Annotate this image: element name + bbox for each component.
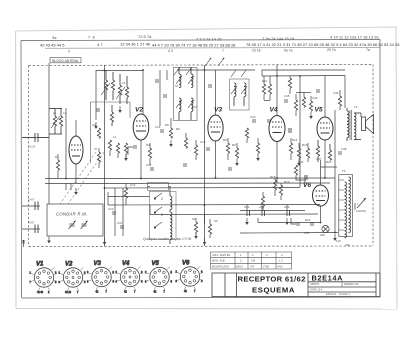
wire bottom bus y222: [258, 222, 321, 224]
svg-text:C33: C33: [312, 96, 318, 100]
svg-text:2: 2: [161, 197, 163, 201]
svg-text:42: 42: [154, 291, 157, 294]
svg-text:7 3 2 7a 14 16: 7 3 2 7a 14 16: [196, 36, 222, 41]
socket V4: [116, 261, 144, 294]
svg-text:25 7a: 25 7a: [327, 48, 336, 52]
wire under V4/V5: [290, 138, 292, 143]
power transformer / choke: [339, 175, 353, 238]
socket V1: [30, 261, 58, 294]
svg-text:6AU6: 6AU6: [236, 264, 243, 268]
wire left lower stubs: [57, 154, 59, 160]
svg-text:1: 1: [240, 253, 242, 257]
wire AVC rail: [105, 187, 300, 190]
svg-text:V6: V6: [182, 260, 190, 266]
svg-text:C63: C63: [284, 205, 290, 209]
svg-text:C1/2: C1/2: [29, 145, 36, 149]
svg-text:7 8: 7 8: [88, 35, 95, 40]
svg-text:757: 757: [250, 264, 255, 268]
wire left cap lead 3: [22, 228, 40, 230]
wire grid network under V2: [128, 147, 133, 155]
title small annotations: [310, 282, 359, 296]
svg-text:C38: C38: [341, 147, 347, 151]
svg-text:3: 3: [55, 272, 57, 275]
wire V1 down: [75, 164, 77, 183]
wire rail right top: [262, 75, 345, 78]
wire heater drops: [65, 184, 67, 191]
wire bottom mid horizontals: [107, 192, 109, 205]
wire vertical x96: [95, 70, 97, 120]
svg-text:47: 47: [94, 147, 98, 151]
wire top B+ rail: [96, 70, 143, 72]
svg-text:L5: L5: [122, 81, 126, 85]
tiny component labels: [53, 79, 358, 247]
svg-text:220: 220: [345, 243, 350, 247]
wire vertical x66: [65, 108, 67, 178]
wire antenna cap lead: [22, 137, 49, 139]
wire bus y205: [108, 204, 320, 207]
BLOCO ANTENA label box: [50, 58, 81, 63]
svg-text:3 B: 3 B: [251, 259, 255, 263]
svg-text:V6: V6: [303, 182, 311, 189]
svg-text:C9: C9: [92, 123, 96, 127]
dial lamp: [322, 225, 329, 232]
svg-text:R22: R22: [305, 218, 311, 222]
wire mid connections: [262, 70, 345, 76]
svg-text:4: 4: [68, 49, 70, 53]
wire vertical x104.5: [104, 65, 106, 246]
parts below V5: [316, 140, 331, 162]
small box near band switch: [148, 183, 169, 191]
svg-text:APROV.: APROV.: [310, 282, 320, 286]
IF transformer T2 coils: [230, 70, 250, 110]
ground symbols: [47, 106, 337, 245]
svg-text:V2: V2: [135, 107, 143, 114]
svg-text:S2: S2: [192, 217, 196, 221]
top band: row of part numbers above main line: [52, 34, 379, 41]
tube V5: [315, 107, 334, 141]
wire vertical V3 stem: [215, 70, 217, 115]
wire V6 down: [320, 206, 322, 222]
tuning gang box CONDAR R.M.: [47, 204, 103, 236]
svg-text:5a 7a: 5a 7a: [284, 48, 293, 52]
svg-text:S7: S7: [175, 84, 179, 88]
svg-text:2: 2: [240, 259, 242, 263]
svg-text:7: 7: [134, 291, 136, 294]
svg-text:2: 2: [116, 271, 118, 274]
svg-text:C47: C47: [316, 157, 322, 161]
svg-text:L4: L4: [113, 135, 117, 139]
dial cord dashed links: [60, 152, 104, 204]
top band: sparse third row: [68, 48, 370, 53]
svg-text:72 6 7a: 72 6 7a: [138, 34, 152, 39]
svg-text:R4: R4: [146, 143, 150, 147]
svg-text:6: 6: [84, 272, 86, 275]
svg-text:Qualquer modelo em pau C7.06: Qualquer modelo em pau C7.06: [143, 237, 191, 241]
svg-text:2: 2: [161, 213, 163, 217]
cap left C3: [28, 198, 38, 211]
wire left cap lead 2: [22, 205, 40, 207]
svg-text:C21: C21: [146, 163, 152, 167]
antenna coil cluster L1: [49, 108, 63, 134]
svg-text:6: 6: [201, 271, 203, 274]
socket V2: [59, 261, 87, 294]
IF T1 trimmer arrows: [174, 67, 192, 75]
svg-text:ESQUEMA: ESQUEMA: [252, 285, 295, 294]
switch contacts in coil box: [154, 193, 162, 228]
IF T1 primary coil: [176, 68, 194, 88]
svg-text:R11: R11: [262, 79, 267, 83]
IF transformer T1 box: [174, 68, 198, 121]
svg-text:C14: C14: [155, 125, 161, 129]
oscillator coil cluster: [101, 70, 129, 104]
svg-text:78 45 17 4 41 22 21 3 31 71 45: 78 45 17 4 41 22 21 3 31 71 45 27 13 65 …: [246, 42, 400, 47]
svg-text:110: 110: [336, 239, 341, 243]
svg-text:7: 7: [164, 291, 166, 294]
svg-text:CONDAR R.M.: CONDAR R.M.: [56, 212, 87, 217]
tube V6: [303, 182, 329, 206]
svg-text:2: 2: [87, 271, 89, 274]
svg-text:23 16: 23 16: [252, 49, 261, 53]
svg-text:T3: T3: [342, 169, 346, 173]
wire bus y214: [150, 213, 318, 216]
svg-text:R9: R9: [232, 143, 236, 147]
wire vertical x115: [114, 188, 116, 236]
wire vertical V5 stem: [324, 76, 326, 117]
wire vertical x204.5 long: [204, 65, 206, 246]
svg-text:44 4 7 29 78 30 74 77 18 48 58: 44 4 7 29 78 30 74 77 18 48 58 29 27 28 …: [152, 43, 236, 48]
tube V1: [69, 136, 83, 164]
tube socket diagrams: [30, 260, 204, 294]
svg-text:2: 2: [176, 271, 178, 274]
wire vertical x300: [299, 76, 301, 187]
wire antenna lead vertical: [48, 63, 50, 204]
svg-text:1 2: 1 2: [279, 259, 283, 263]
svg-text:4 7: 4 7: [97, 42, 103, 47]
tube V2: [133, 107, 149, 141]
svg-text:DATA 12-4: DATA 12-4: [310, 288, 323, 292]
wire V6 stem: [320, 160, 322, 185]
svg-text:42: 42: [124, 291, 127, 294]
vertical wire x160: [159, 70, 161, 126]
svg-text:2: 2: [48, 291, 50, 294]
svg-text:RECEPTOR 61/62: RECEPTOR 61/62: [238, 275, 306, 284]
svg-text:3: 3: [266, 253, 268, 257]
svg-text:C23: C23: [250, 115, 256, 119]
svg-text:R19: R19: [284, 180, 290, 184]
socket V3: [87, 261, 115, 294]
trimmer slashes above V3: [205, 58, 225, 66]
svg-text:42: 42: [96, 291, 99, 294]
wire vertical V4 stem: [276, 65, 278, 116]
svg-text:C11: C11: [117, 221, 122, 225]
speaker: [361, 113, 374, 134]
schematic main wiring: [22, 63, 345, 246]
title block: [212, 273, 380, 297]
svg-text:ESCALA FOLHA 1: ESCALA FOLHA 1: [326, 292, 350, 296]
svg-text:2: 2: [145, 271, 147, 274]
svg-text:V1: V1: [36, 261, 44, 267]
svg-text:4-62: 4-62: [277, 264, 283, 268]
svg-text:C17: C17: [192, 105, 198, 109]
svg-text:4: 4: [281, 253, 283, 257]
svg-text:MODIFICADO: MODIFICADO: [212, 264, 229, 268]
svg-text:V3: V3: [214, 107, 222, 114]
parts inside V1 box: [96, 105, 114, 126]
tube V4: [269, 107, 285, 142]
output transformer T3: [347, 108, 361, 141]
svg-text:110/220: 110/220: [356, 209, 366, 213]
chassis dashed box: [29, 65, 373, 247]
svg-text:V3: V3: [94, 261, 102, 267]
socket V5: [145, 261, 173, 294]
cap left C5: [28, 221, 38, 234]
svg-text:3a: 3a: [52, 35, 57, 40]
svg-text:7: 7: [106, 291, 108, 294]
top band: dense row of part numbers below main line: [40, 42, 400, 48]
svg-text:BLOCO ANTENA: BLOCO ANTENA: [52, 59, 79, 63]
svg-text:42 43: 42 43: [37, 291, 44, 294]
svg-text:R18: R18: [270, 175, 276, 179]
svg-text:L2: L2: [63, 111, 67, 115]
wire V6 area: [296, 176, 306, 180]
wire heater rail 2: [45, 182, 330, 185]
svg-text:42: 42: [184, 290, 187, 293]
svg-text:R5: R5: [165, 123, 169, 127]
svg-text:R14: R14: [292, 138, 298, 142]
svg-text:R15: R15: [302, 143, 308, 147]
svg-text:R6: R6: [176, 127, 180, 131]
wire vertical x143 V2 stem: [142, 70, 144, 114]
svg-text:C36: C36: [333, 91, 339, 95]
svg-text:S3: S3: [214, 219, 218, 223]
svg-text:V2: V2: [65, 261, 73, 267]
band switch coil box: [150, 192, 177, 240]
wire vertical V4 down: [276, 141, 278, 183]
svg-text:42 43 45 44 5: 42 43 45 44 5: [40, 42, 65, 47]
mains switch arrow: [355, 198, 366, 213]
svg-text:V4: V4: [270, 107, 278, 114]
svg-text:C58: C58: [304, 231, 310, 235]
svg-text:7: 7: [77, 291, 79, 294]
svg-text:2768: 2768: [263, 264, 269, 268]
svg-text:2: 2: [59, 272, 61, 275]
svg-text:VALV. 6AV6 EF: VALV. 6AV6 EF: [212, 253, 231, 257]
svg-text:220: 220: [320, 233, 325, 237]
sheet scan edges: [16, 27, 397, 309]
svg-text:MOD. 61B: MOD. 61B: [212, 259, 225, 263]
svg-text:6: 6: [113, 271, 115, 274]
svg-text:R1: R1: [55, 155, 59, 159]
top band: thin secondary rule: [45, 47, 380, 50]
svg-text:6: 6: [171, 271, 173, 274]
svg-text:C43: C43: [298, 160, 304, 164]
wire vertical V5 down: [324, 140, 326, 178]
small capacitors (pairs of bars): [112, 80, 342, 228]
svg-text:4 3: 4 3: [168, 49, 173, 53]
svg-text:7a: 7a: [366, 48, 370, 52]
revision table: [211, 252, 292, 269]
svg-text:R8: R8: [223, 138, 227, 142]
wire V1 stem: [75, 120, 77, 136]
left margin mark: [22, 240, 25, 247]
svg-text:42 23: 42 23: [65, 291, 72, 294]
svg-text:2: 2: [252, 253, 254, 257]
svg-text:L: L: [357, 202, 359, 206]
svg-text:B2E14A: B2E14A: [312, 274, 344, 283]
svg-text:C4/7: C4/7: [28, 198, 35, 202]
socket V6: [176, 260, 204, 293]
tube V3: [208, 107, 223, 142]
scattered small resistors: [56, 78, 341, 234]
svg-text:V5: V5: [315, 107, 323, 114]
vertical wire x167 short: [166, 70, 168, 80]
IF box around V1 input: [91, 102, 131, 163]
wire horizontal y196: [108, 196, 150, 198]
svg-text:V5: V5: [152, 261, 160, 267]
wire vertical V2 down: [140, 140, 142, 178]
svg-text:C28: C28: [284, 94, 290, 98]
svg-text:12 34 36 1 27 46: 12 34 36 1 27 46: [120, 42, 151, 47]
wire heater rail 1: [45, 177, 335, 180]
wire power area: [240, 210, 305, 212]
wire right area verticals: [344, 76, 346, 109]
svg-text:6: 6: [141, 271, 143, 274]
svg-text:L1: L1: [53, 111, 57, 115]
svg-text:7: 7: [222, 49, 224, 53]
svg-text:R20: R20: [326, 160, 332, 164]
band switch coils: [161, 190, 172, 244]
wire vertical x123: [122, 188, 124, 236]
svg-text:C4/7: C4/7: [28, 221, 35, 225]
svg-text:V4: V4: [122, 261, 130, 267]
svg-text:7: 7: [194, 290, 196, 293]
wire bus y232: [240, 232, 338, 235]
svg-text:C18: C18: [200, 140, 206, 144]
IF T1 secondary coil: [176, 98, 194, 120]
wire rail V2-V3 top: [177, 69, 255, 71]
svg-text:7 3a 74 14a 15 16: 7 3a 74 14a 15 16: [262, 36, 295, 41]
svg-text:DESEN H.M.: DESEN H.M.: [344, 282, 359, 286]
svg-text:T2: T2: [354, 105, 358, 109]
svg-text:4 14 11 12 12a 17 18 13 2a: 4 14 11 12 12a 17 18 13 2a: [330, 35, 379, 40]
svg-text:C62: C62: [259, 205, 265, 209]
wire under V3: [227, 138, 229, 143]
svg-text:C61: C61: [244, 205, 250, 209]
svg-text:C12: C12: [130, 183, 136, 187]
wire upper right cluster stubs: [263, 76, 265, 84]
wire vertical x335: [334, 140, 336, 232]
cap C1 antenna input: [22, 133, 49, 149]
wire band switch column: [148, 186, 151, 188]
frame border: [21, 40, 380, 299]
svg-text:1: 1: [30, 272, 32, 275]
wire V6 top to transformer: [321, 166, 338, 168]
svg-text:C10: C10: [108, 207, 114, 211]
wire vertical V3 down: [215, 141, 217, 178]
